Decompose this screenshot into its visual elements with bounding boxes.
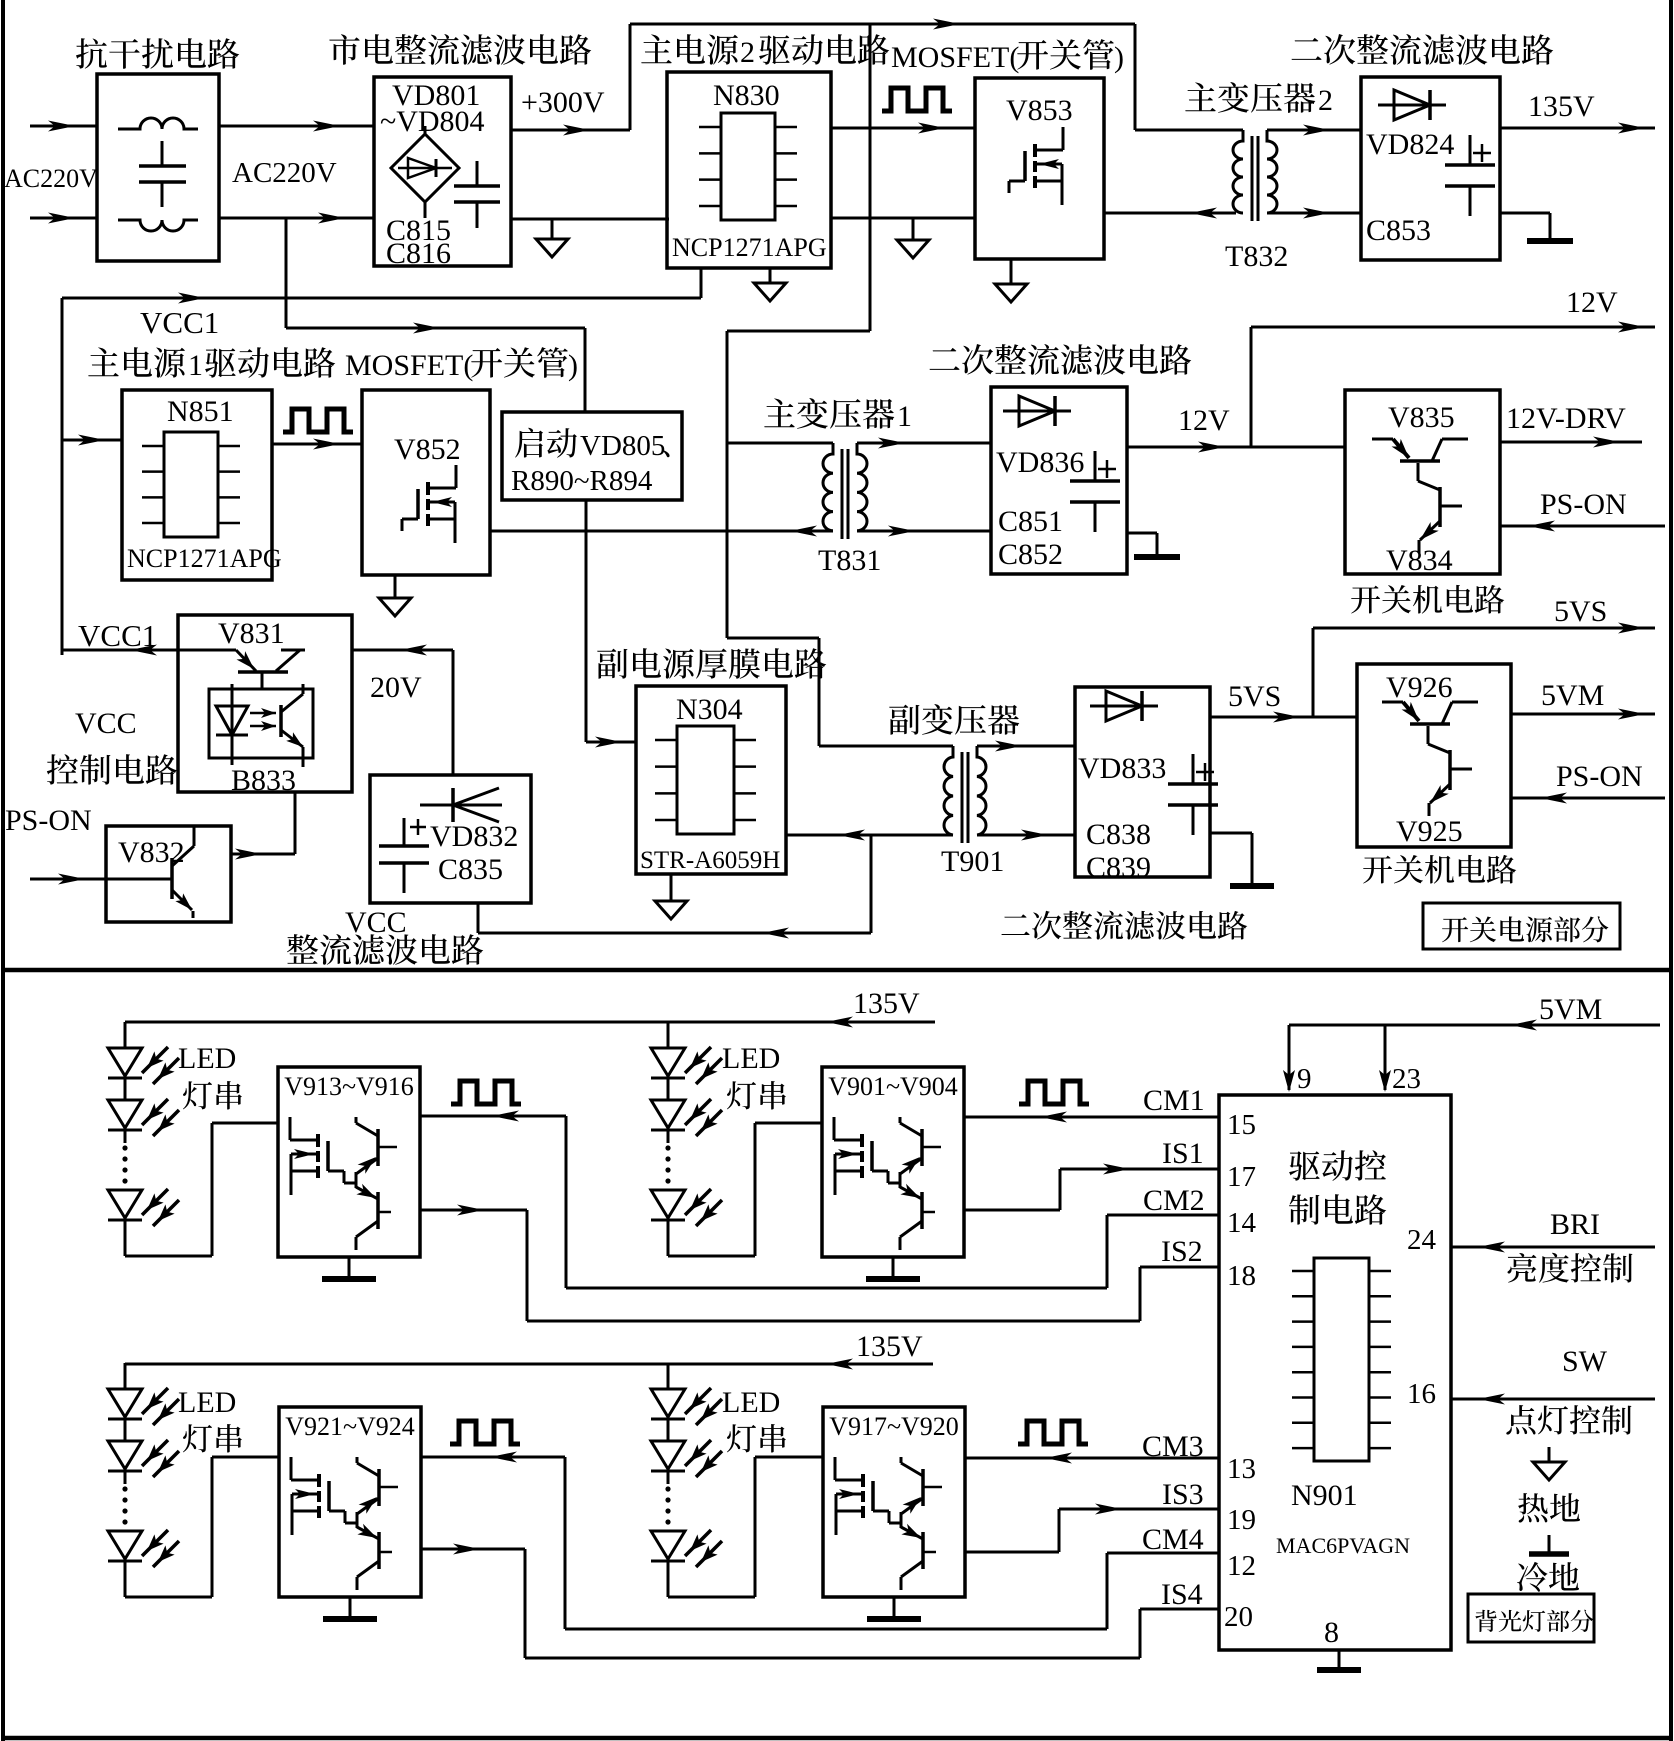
wire (667, 1561, 670, 1597)
wire (124, 1419, 127, 1441)
squarewave row1 right (1019, 1081, 1089, 1104)
wire PS-ON in lower (1511, 797, 1665, 800)
LED D3 (651, 1531, 685, 1559)
wire SW in (1451, 1398, 1655, 1401)
wire (124, 1471, 127, 1484)
label main supply 2 driver 主电源2驱动电路 (641, 34, 738, 65)
svg-text:C835: C835 (438, 853, 503, 886)
svg-text:CM4: CM4 (1142, 1523, 1204, 1556)
wire 135V rail row2 (125, 1363, 933, 1366)
diode VD832 (420, 804, 502, 807)
transistors in V917~V920 (921, 1469, 925, 1506)
svg-text:1: 1 (897, 400, 912, 433)
wire CM2 gate route (420, 1115, 566, 1118)
wire 5VS rail (1313, 627, 1655, 630)
svg-text:): ) (568, 349, 578, 382)
label backlight part 背光灯部分 (1468, 1594, 1594, 1642)
border frame left (1, 0, 5, 1741)
border frame bottom (3, 1736, 1671, 1741)
svg-text:V831: V831 (218, 617, 285, 650)
svg-text:VD832: VD832 (430, 820, 518, 853)
LED D1 (108, 1048, 142, 1076)
wire VCC1 left rail (61, 298, 64, 655)
mosfet V853 (1033, 144, 1037, 157)
svg-text:V852: V852 (394, 433, 461, 466)
wire (667, 1419, 670, 1441)
svg-text:CM2: CM2 (1143, 1184, 1205, 1217)
svg-text:C851: C851 (998, 505, 1063, 538)
wire N304 to T901 bottom (786, 834, 953, 837)
transformer T901 (961, 752, 964, 843)
label part name box 开关电源部分 (1423, 903, 1620, 949)
svg-text:VD833: VD833 (1078, 752, 1166, 785)
LED D3 (108, 1531, 142, 1559)
wire PS-ON in upper (1500, 525, 1665, 528)
svg-text:V913~V916: V913~V916 (284, 1072, 414, 1101)
dots (122, 1486, 127, 1491)
svg-text:20V: 20V (370, 671, 422, 704)
wire led3 bottom (125, 1596, 212, 1599)
switch block V835 V834 (1345, 390, 1500, 574)
svg-text:N304: N304 (676, 693, 743, 726)
svg-text:T901: T901 (941, 845, 1004, 878)
svg-text:19: 19 (1227, 1504, 1256, 1536)
ground V901~V904 (892, 1257, 895, 1277)
ground N830 (769, 268, 772, 283)
bridge rectifier VD801~VD804 (424, 126, 427, 136)
wire (667, 1220, 670, 1256)
mosfet in V913~V916 (316, 1134, 320, 1147)
svg-text:STR-A6059H: STR-A6059H (640, 847, 780, 874)
svg-text:C853: C853 (1366, 214, 1431, 247)
optocoupler B833 (209, 689, 313, 758)
MOSFET block V852 (362, 390, 490, 575)
IC symbol N851 (164, 432, 218, 537)
svg-text:R890~R894: R890~R894 (511, 465, 653, 497)
wire gate N851 to V852 (272, 443, 362, 446)
internal wires V901~V904 (888, 1182, 900, 1185)
label main transformer1 主变压器1 (764, 398, 894, 429)
wire +300V out (511, 129, 630, 132)
inductor bottom (118, 220, 198, 231)
wire VCC1 into V831 (62, 649, 178, 652)
wire led4 bottom (668, 1596, 755, 1599)
wire led1 bottom (125, 1255, 212, 1258)
svg-text:): ) (1114, 41, 1124, 74)
wire C853 gnd (1500, 212, 1550, 215)
svg-text:SW: SW (1562, 1345, 1608, 1378)
svg-text:8: 8 (1324, 1616, 1339, 1649)
wire CM2 pin14 (1107, 1214, 1219, 1217)
LED D3 (108, 1190, 142, 1218)
svg-text:V901~V904: V901~V904 (828, 1072, 958, 1101)
label driver control 驱动控制电路 (1289, 1150, 1386, 1181)
LED D1 (651, 1048, 685, 1076)
IC symbol N901 (1314, 1258, 1369, 1461)
wire CM3 (965, 1457, 1219, 1460)
LED D2 (108, 1100, 142, 1128)
svg-text:V921~V924: V921~V924 (285, 1412, 415, 1441)
label sub supply thick film 副电源厚膜电路 (597, 648, 826, 679)
capacitor C851 C852 (1094, 451, 1097, 481)
LED D2 (651, 1441, 685, 1469)
led string wire top (124, 1363, 127, 1389)
startup block 启动VD805 R890-R894 (502, 412, 682, 500)
svg-text:BRI: BRI (1550, 1208, 1600, 1241)
wire led2 bottom (668, 1255, 755, 1258)
wire N830 vcc down (700, 268, 703, 298)
label main supply1 driver 主电源1驱动电路 (88, 347, 185, 378)
wire 12V out (1127, 446, 1345, 449)
wire startup down to N304 (585, 500, 588, 742)
EMI filter block (97, 74, 219, 261)
svg-text:C839: C839 (1086, 851, 1151, 884)
dots (665, 1486, 670, 1491)
wire 5VM out (1511, 713, 1655, 716)
svg-text:12: 12 (1227, 1550, 1256, 1582)
backlight switch block V921~V924 (279, 1407, 421, 1597)
transistor V832 (170, 858, 174, 899)
IC symbol N304 (677, 726, 734, 834)
wire AC input bottom (30, 217, 97, 220)
svg-text:CM3: CM3 (1142, 1430, 1204, 1463)
LED D2 (108, 1441, 142, 1469)
ground V852 (394, 575, 397, 598)
label mains rectifier 市电整流滤波电路 (329, 34, 591, 65)
backlight switch block V913~V916 (278, 1067, 420, 1257)
svg-text:VCC: VCC (75, 707, 137, 740)
svg-text:V925: V925 (1396, 815, 1463, 848)
svg-text:C838: C838 (1086, 818, 1151, 851)
wire pin23 feed (1384, 1025, 1387, 1090)
svg-text:PS-ON: PS-ON (1556, 760, 1643, 793)
internal wires V913~V916 (344, 1182, 356, 1185)
wire V853 out (1104, 212, 1236, 215)
svg-text:IS2: IS2 (1161, 1235, 1203, 1268)
backlight switch block V901~V904 (822, 1067, 964, 1257)
wire 20V (352, 649, 453, 652)
block V832 (106, 826, 231, 922)
svg-text:12V: 12V (1566, 286, 1618, 319)
ground N901 (1338, 1650, 1341, 1668)
wire rail down to T832 (1134, 24, 1137, 130)
svg-text:VD824: VD824 (1366, 128, 1454, 161)
ground hot 热地 (1548, 1447, 1551, 1462)
ground bridge output (551, 219, 554, 239)
svg-text:V926: V926 (1386, 671, 1453, 704)
border frame right (1669, 0, 1673, 1741)
svg-text:AC220V: AC220V (4, 164, 98, 193)
squarewave row1 left (451, 1081, 521, 1104)
capacitor C815 C816 (476, 161, 479, 186)
transistor V831 (178, 649, 236, 652)
mosfet in V921~V924 (317, 1474, 321, 1487)
dots (665, 1145, 670, 1150)
svg-text:+300V: +300V (521, 86, 605, 119)
driver block N830 (667, 72, 831, 268)
label switch circuit 开关机电路 (1351, 585, 1504, 614)
wire V852 drain to T831 (490, 530, 833, 533)
capacitor C853 (1469, 135, 1472, 165)
wire 135V rail row1 (125, 1021, 935, 1024)
svg-text:5VM: 5VM (1541, 679, 1604, 712)
wire 20V down (452, 650, 455, 775)
wire 12V rail (1251, 326, 1655, 329)
svg-text:9: 9 (1297, 1063, 1312, 1095)
wire B+ to T901 (727, 637, 819, 640)
wire N830-V853 lower (831, 217, 975, 220)
svg-text:13: 13 (1227, 1453, 1256, 1485)
ground V853 (1010, 259, 1013, 284)
wire BRI in (1451, 1246, 1655, 1249)
svg-text:135V: 135V (1528, 90, 1595, 123)
wire +300V top rail (630, 23, 1135, 26)
wire AC input top (30, 125, 97, 128)
wire (667, 1078, 670, 1100)
diode VD836 (1003, 410, 1071, 413)
svg-text:MOSFET(: MOSFET( (345, 349, 473, 382)
wire N851 input (62, 439, 122, 442)
switch block V926 V925 (1357, 664, 1511, 847)
svg-text:IS4: IS4 (1161, 1578, 1203, 1611)
capacitor filter (161, 141, 164, 166)
svg-text:2: 2 (740, 36, 755, 69)
sub supply block N304 (636, 686, 786, 874)
vcc control block V831 B833 (178, 615, 352, 792)
svg-text:12V-DRV: 12V-DRV (1506, 402, 1626, 435)
label switch circuit2 开关机电路 (1363, 855, 1516, 884)
svg-text:135V: 135V (856, 1330, 923, 1363)
wire IS3 route (965, 1551, 1059, 1554)
svg-text:NCP1271APG: NCP1271APG (672, 233, 827, 262)
wire IS4 pin20 (1140, 1608, 1219, 1611)
svg-text:15: 15 (1227, 1109, 1256, 1141)
transformer T831 (841, 449, 844, 539)
wire (124, 1561, 127, 1597)
svg-text:IS1: IS1 (1162, 1137, 1204, 1170)
svg-text:N851: N851 (167, 395, 234, 428)
svg-text:B833: B833 (231, 764, 296, 797)
wire VCC1 feed rail (62, 297, 701, 300)
diode VD824 (1378, 104, 1446, 107)
wire B+ branch (727, 330, 870, 333)
svg-text:V917~V920: V917~V920 (829, 1412, 959, 1441)
squarewave row2 right (1018, 1421, 1088, 1444)
dots (122, 1145, 127, 1150)
backlight switch block V917~V920 (823, 1407, 965, 1597)
internal wires V917~V920 (889, 1522, 901, 1525)
svg-text:16: 16 (1407, 1378, 1436, 1410)
svg-text:V853: V853 (1006, 94, 1073, 127)
wire CM4 gate route (421, 1456, 565, 1459)
svg-text:5VS: 5VS (1228, 680, 1281, 713)
transistors in V921~V924 (377, 1469, 381, 1506)
transformer T832 (1251, 136, 1254, 221)
wire C839 gnd (1210, 832, 1252, 835)
svg-text:AC220V: AC220V (232, 157, 337, 189)
wire CM1 (964, 1116, 1219, 1119)
ground cold 冷地 (1548, 1535, 1551, 1552)
svg-text:PS-ON: PS-ON (5, 804, 92, 837)
wire (667, 1471, 670, 1484)
wire 5VS to V926 (1210, 716, 1357, 719)
svg-text:C852: C852 (998, 538, 1063, 571)
label main transformer2 主变压器2 (1185, 82, 1315, 113)
svg-text:2: 2 (1318, 84, 1333, 117)
svg-text:5VS: 5VS (1554, 595, 1607, 628)
wire (124, 1130, 127, 1143)
svg-text:LED: LED (178, 1042, 236, 1075)
led string 4 (667, 1364, 670, 1389)
svg-text:17: 17 (1227, 1161, 1256, 1193)
diode VD833 (1090, 705, 1158, 708)
svg-text:VCC1: VCC1 (140, 305, 219, 340)
LED D2 (651, 1100, 685, 1128)
wire C835 return (477, 903, 480, 933)
svg-text:12V: 12V (1178, 404, 1230, 437)
mosfet in V901~V904 (860, 1134, 864, 1147)
wire CM4 pin12 (1107, 1552, 1219, 1555)
svg-text:VD805: VD805 (580, 430, 665, 462)
svg-text:V834: V834 (1386, 544, 1453, 577)
wire +300V riser (629, 24, 632, 130)
ground N304 (670, 874, 673, 901)
squarewave row2 left (450, 1421, 520, 1444)
svg-text:IS3: IS3 (1162, 1478, 1204, 1511)
mosfet in V917~V920 (861, 1474, 865, 1487)
capacitor C838 C839 (1192, 754, 1195, 784)
label secondary rectifier 二次整流滤波电路 (1292, 34, 1554, 65)
rectifier block VD833 (1075, 687, 1210, 877)
inductor top (118, 118, 198, 129)
rectifier block VD801-VD804 (374, 77, 511, 266)
label sub transformer 副变压器 (889, 704, 1019, 735)
label anti-interference circuit 抗干扰电路 (76, 38, 239, 69)
led string wire top (667, 1363, 670, 1389)
wire IS2 pin18 (1140, 1266, 1219, 1269)
wire AC to startup (286, 327, 585, 330)
svg-text:1: 1 (188, 349, 203, 382)
svg-text:VCC: VCC (345, 906, 407, 939)
vcc rectifier block VD832 C835 (370, 775, 531, 903)
wire into N304 (586, 741, 636, 744)
svg-text:MOSFET(: MOSFET( (891, 41, 1019, 74)
svg-text:20: 20 (1224, 1601, 1253, 1633)
svg-text:LED: LED (722, 1386, 780, 1419)
wire IS1 route (964, 1209, 1060, 1212)
led string 1 (124, 1022, 127, 1048)
label secondary rect mid 二次整流滤波电路 (930, 344, 1192, 375)
svg-text:LED: LED (722, 1042, 780, 1075)
svg-text:MAC6PVAGN: MAC6PVAGN (1276, 1533, 1410, 1558)
svg-text:23: 23 (1392, 1063, 1421, 1095)
capacitor C835 plus (403, 818, 406, 846)
wire C852 gnd (1127, 532, 1157, 535)
driver control block N901 (1219, 1095, 1451, 1650)
ground V913~V916 (348, 1257, 351, 1277)
label light control 点灯控制 (1506, 1405, 1631, 1435)
ground V921~V924 (349, 1597, 352, 1617)
transistors in V901~V904 (920, 1129, 924, 1166)
wire AC220V to bridge top (219, 125, 374, 128)
transistor pair V926 V925 (1382, 701, 1403, 704)
svg-text:5VM: 5VM (1539, 993, 1602, 1026)
svg-text:N830: N830 (713, 79, 780, 112)
wire AC tap down to startup (285, 218, 288, 328)
LED D1 (108, 1389, 142, 1417)
led string wire top (667, 1022, 670, 1048)
svg-text:T832: T832 (1225, 240, 1288, 273)
led string 2 (667, 1022, 670, 1048)
ground V917~V920 (893, 1597, 896, 1617)
led string wire top (124, 1022, 127, 1048)
wire gate N830 to V853 (831, 127, 975, 130)
squarewave drive 2 (882, 88, 952, 111)
svg-text:~VD804: ~VD804 (380, 105, 485, 138)
transistor pair V835 V834 (1372, 438, 1393, 441)
wire PS-ON in (30, 878, 106, 881)
rectifier block VD836 (991, 387, 1127, 574)
label brightness 亮度控制 (1508, 1253, 1633, 1283)
IC symbol N830 (721, 113, 775, 220)
svg-text:NCP1271APG: NCP1271APG (127, 544, 282, 573)
LED D1 (651, 1389, 685, 1417)
svg-text:24: 24 (1407, 1224, 1437, 1256)
svg-text:CM1: CM1 (1143, 1084, 1205, 1117)
squarewave drive 1 (283, 409, 353, 432)
svg-text:PS-ON: PS-ON (1540, 488, 1627, 521)
svg-text:VD836: VD836 (996, 446, 1084, 479)
wire IS2 route (420, 1209, 527, 1212)
svg-text:135V: 135V (853, 987, 920, 1020)
wire branch to T831 (727, 442, 833, 445)
wire (124, 1078, 127, 1100)
internal wires V921~V924 (345, 1522, 357, 1525)
led string 3 (124, 1364, 127, 1389)
svg-text:18: 18 (1227, 1260, 1256, 1292)
rectifier block VD824 (1361, 77, 1500, 260)
MOSFET block V853 (975, 78, 1104, 259)
svg-text:LED: LED (178, 1386, 236, 1419)
driver block N851 (122, 390, 272, 580)
svg-text:14: 14 (1227, 1207, 1257, 1239)
wire (124, 1220, 127, 1256)
svg-text:T831: T831 (818, 544, 881, 577)
wire B833 out down (294, 792, 297, 854)
label secondary rect bottom 二次整流滤波电路 (1001, 911, 1247, 940)
wire pin9 feed (1288, 1025, 1291, 1090)
wire bridge minus out (511, 218, 669, 221)
wire AC220V to bridge bottom (219, 217, 374, 220)
svg-text:C816: C816 (386, 237, 451, 270)
svg-text:N901: N901 (1291, 1479, 1358, 1512)
wire T901 return down (870, 835, 873, 933)
mosfet V852 (426, 482, 430, 495)
wire (667, 1130, 670, 1143)
ground mid rail (912, 218, 915, 240)
transistors in V913~V916 (376, 1129, 380, 1166)
LED D3 (651, 1190, 685, 1218)
svg-text:V835: V835 (1388, 401, 1455, 434)
wire 5VM rail (1289, 1024, 1660, 1027)
wire 12V-DRV out (1500, 441, 1642, 444)
section divider (3, 968, 1671, 973)
wire IS4 route (421, 1548, 525, 1551)
